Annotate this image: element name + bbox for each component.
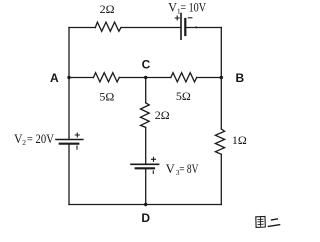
label V3 = 8V xyxy=(166,162,199,177)
wire middle left resistor to C xyxy=(119,77,171,79)
caption char ER (two) xyxy=(268,219,279,227)
wire top middle segment xyxy=(121,27,180,29)
caption char TU (figure) xyxy=(256,216,265,227)
wire right vertical upper (corner to B to 1ohm) xyxy=(220,28,222,130)
battery V3 short plate (-) xyxy=(136,167,154,169)
minus tick of V3 xyxy=(152,171,154,174)
svg-text:2Ω: 2Ω xyxy=(100,2,115,16)
svg-text:= 10V: = 10V xyxy=(180,0,206,14)
svg-text:= 8V: = 8V xyxy=(179,162,198,176)
label V1 = 10V xyxy=(168,0,206,15)
resistor R_mid 2ohm (vertical) xyxy=(141,103,150,128)
svg-text:V: V xyxy=(166,162,175,176)
svg-text:1Ω: 1Ω xyxy=(232,133,247,147)
resistor R_right 5ohm xyxy=(171,73,197,82)
plus sign of V1 xyxy=(175,16,179,20)
wire center vertical C to 2ohm resistor xyxy=(145,78,147,103)
resistor R_top 2ohm xyxy=(95,22,121,31)
minus tick of V2 xyxy=(76,146,78,149)
resistor R_1ohm (vertical) xyxy=(215,129,224,154)
svg-text:V: V xyxy=(14,132,23,146)
node D xyxy=(144,203,147,206)
wire middle right resistor to B xyxy=(197,77,222,79)
wire top-left horizontal segment xyxy=(69,27,95,29)
wire top-right horizontal segment xyxy=(186,27,221,29)
wire center vertical V3 to D xyxy=(145,169,147,205)
wire bottom horizontal xyxy=(69,204,221,206)
wire left vertical lower (V2 to bottom corner) xyxy=(68,144,70,204)
wire center vertical resistor to V3 xyxy=(145,127,147,163)
svg-text:B: B xyxy=(236,71,245,85)
plus sign of V3 xyxy=(152,157,156,161)
svg-text:2Ω: 2Ω xyxy=(155,108,170,122)
svg-text:V: V xyxy=(168,0,177,14)
node A xyxy=(67,76,70,79)
battery V1 long plate (+) xyxy=(180,14,182,40)
wire middle A to left resistor xyxy=(69,77,93,79)
minus sign of V1 xyxy=(188,17,192,19)
svg-text:D: D xyxy=(141,211,150,225)
label V2 = 20V xyxy=(14,132,54,147)
battery V3 long plate (+) xyxy=(131,163,159,165)
wire left vertical upper (corner to A to V2) xyxy=(68,28,70,140)
battery V2 long plate (+) xyxy=(56,139,83,141)
battery V1 short plate (-) xyxy=(184,19,186,35)
svg-text:5Ω: 5Ω xyxy=(176,89,191,103)
resistor R_left 5ohm xyxy=(93,73,119,82)
plus sign of V2 xyxy=(75,133,79,137)
svg-text:= 20V: = 20V xyxy=(27,132,54,146)
svg-text:5Ω: 5Ω xyxy=(99,89,114,103)
node C xyxy=(144,76,147,79)
svg-text:C: C xyxy=(142,58,151,72)
wire right vertical lower (1ohm to bottom corner) xyxy=(220,154,222,204)
svg-text:2: 2 xyxy=(22,138,26,147)
svg-text:A: A xyxy=(50,71,59,85)
battery V2 short plate (-) xyxy=(60,143,79,145)
node B xyxy=(220,76,223,79)
junction speck on top wire xyxy=(195,26,197,28)
